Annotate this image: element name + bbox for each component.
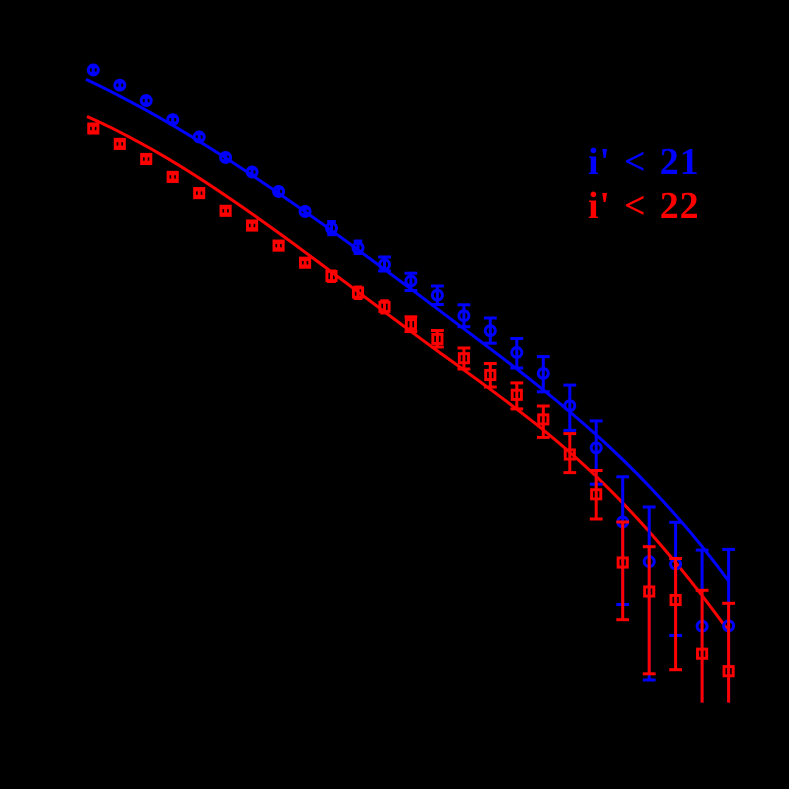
blue circle data point 19 with error bar — [563, 385, 576, 430]
red square data point 17 with error bar — [510, 383, 523, 409]
blue circle data point 7 with error bar — [247, 167, 257, 177]
svg-text:i' < 21: i' < 21 — [588, 141, 699, 183]
blue circle data point 6 with error bar — [221, 153, 231, 163]
blue circle data point 15 with error bar — [458, 305, 471, 327]
red square data point 11 with error bar — [353, 287, 362, 299]
blue circle data point 10 with error bar — [327, 222, 337, 235]
blue circle data point 5 with error bar — [194, 132, 204, 142]
red square data point 3 with error bar — [142, 154, 151, 163]
red square data point 4 with error bar — [168, 172, 177, 181]
blue circle data point 23 with error bar — [669, 522, 682, 635]
blue circle data point 9 with error bar — [300, 206, 310, 216]
blue circle data point 1 with error bar — [88, 65, 98, 75]
blue circle data point 14 with error bar — [431, 286, 444, 305]
red square data point 23 with error bar — [669, 559, 682, 670]
blue circle data point 16 with error bar — [484, 318, 497, 343]
red square data point 21 with error bar — [616, 522, 629, 620]
red square data point 22 with error bar — [643, 547, 656, 674]
red square data point 18 with error bar — [537, 406, 550, 437]
blue circle data point 18 with error bar — [537, 357, 550, 392]
red square data point 13 with error bar — [405, 317, 418, 332]
blue circle data point 13 with error bar — [405, 273, 418, 290]
red square data point 6 with error bar — [221, 206, 230, 215]
red square data point 15 with error bar — [458, 348, 471, 369]
red square data point 12 with error bar — [380, 301, 389, 313]
blue model curve (fit for i' &lt; 21 sample) — [86, 79, 729, 581]
blue circle data point 20 with error bar — [590, 421, 603, 484]
red square data point 9 with error bar — [301, 258, 310, 267]
red square data point 16 with error bar — [484, 364, 497, 388]
red square data point 20 with error bar — [590, 471, 603, 520]
blue circle data point 24 with error bar — [696, 550, 709, 703]
svg-text:i' < 22: i' < 22 — [588, 185, 699, 227]
blue circle data point 12 with error bar — [378, 257, 391, 271]
blue circle data point 11 with error bar — [353, 241, 363, 254]
red square data point 25 with error bar — [722, 603, 735, 702]
red model curve (fit for i' &lt; 22 sample) — [87, 117, 729, 633]
red square data point 2 with error bar — [115, 139, 124, 148]
blue circle data point 4 with error bar — [168, 115, 178, 125]
red square data point 5 with error bar — [195, 189, 204, 198]
blue circle data point 25 with error bar — [722, 549, 735, 702]
blue circle data point 22 with error bar — [643, 507, 656, 680]
red square data point 19 with error bar — [563, 434, 576, 473]
red square data point 10 with error bar — [327, 271, 336, 282]
red square data point 7 with error bar — [248, 221, 257, 230]
red square data point 24 with error bar — [696, 590, 709, 702]
blue circle data point 17 with error bar — [510, 339, 523, 369]
red square data point 8 with error bar — [274, 241, 283, 250]
blue circle data point 8 with error bar — [274, 187, 284, 197]
blue circle data point 21 with error bar — [616, 477, 629, 605]
red square data point 1 with error bar — [89, 124, 98, 133]
red square data point 14 with error bar — [431, 331, 444, 348]
blue circle data point 3 with error bar — [141, 96, 151, 106]
blue circle data point 2 with error bar — [115, 80, 125, 90]
